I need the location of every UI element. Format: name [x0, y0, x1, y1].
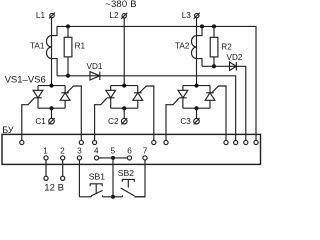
node terminal 5 — [111, 156, 115, 160]
BU input circle VD1 feed — [234, 140, 238, 144]
BU input circle gate VS3 — [93, 140, 97, 144]
terminal 12V a — [44, 176, 48, 180]
svg-text:C3: C3 — [180, 117, 191, 126]
wire gate VS2 — [67, 86, 82, 140]
BU terminal numbers 1-7 — [43, 146, 148, 155]
svg-text:SB2: SB2 — [118, 168, 134, 178]
thyristor pair VS3/VS4 — [106, 86, 143, 109]
BU input circle common bus — [254, 140, 258, 144]
terminal 7 — [143, 156, 147, 160]
svg-text:2: 2 — [60, 146, 65, 155]
thyristor pair VS1/VS2 — [33, 86, 70, 109]
thyristor pair VS5/VS6 — [178, 86, 215, 109]
wire TA1 bottom tap — [52, 59, 58, 76]
node pair3 bottom — [195, 106, 199, 110]
wire R2 top lead — [213, 26, 215, 37]
node TA2 tap — [200, 24, 204, 28]
svg-text:SB1: SB1 — [89, 171, 105, 181]
wire L2 phase — [123, 18, 125, 86]
wire L1 phase — [51, 18, 53, 86]
node pair1 top — [50, 84, 54, 88]
node pair1 bottom — [50, 106, 54, 110]
svg-text:7: 7 — [143, 146, 148, 155]
resistor R2 — [210, 37, 218, 57]
node R1 bottom — [66, 74, 70, 78]
wire L3 phase — [196, 18, 198, 86]
svg-text:C1: C1 — [35, 117, 46, 126]
svg-text:TA1: TA1 — [30, 41, 45, 50]
svg-text:VS1–VS6: VS1–VS6 — [5, 74, 46, 85]
wire R2 bottom lead — [213, 57, 215, 66]
svg-text:5: 5 — [111, 146, 116, 155]
svg-text:VD2: VD2 — [227, 53, 243, 62]
wire gate VS1 — [22, 98, 34, 140]
wire TA2 top tap — [197, 26, 203, 35]
node pair2 bottom — [122, 106, 126, 110]
wire TA2 bottom tap — [197, 59, 203, 67]
svg-text:R1: R1 — [75, 42, 86, 51]
svg-text:L2: L2 — [109, 11, 119, 20]
wire TA1 top tap — [52, 26, 58, 35]
terminal 6 — [127, 156, 131, 160]
wire terminal 5 down — [112, 160, 114, 197]
svg-text:4: 4 — [94, 146, 99, 155]
node pair2 top — [122, 84, 126, 88]
node R1 top — [66, 24, 70, 28]
wire terminal 7 down — [135, 160, 146, 197]
wire VD2 line — [202, 66, 246, 140]
wire gate VS4 — [139, 86, 154, 140]
resistor R1 — [64, 37, 72, 57]
wire gate VS5 — [166, 98, 179, 140]
node R2 top — [212, 24, 216, 28]
node rail 5 — [111, 195, 115, 199]
svg-text:VD1: VD1 — [87, 62, 103, 71]
wire gate VS3 — [95, 98, 107, 140]
BU input circle gate VS6 — [224, 140, 228, 144]
terminal 4 — [95, 156, 99, 160]
wire terminal 3 down — [78, 160, 80, 197]
BU input circle VD2 feed — [244, 140, 248, 144]
svg-text:L3: L3 — [182, 11, 192, 20]
node pair3 top — [195, 84, 199, 88]
wire R1 bottom lead — [67, 57, 69, 76]
BU input circle gate VS4 — [152, 140, 156, 144]
BU input circle gate VS5 — [164, 140, 168, 144]
svg-text:C2: C2 — [108, 117, 119, 126]
terminal 12V b — [61, 176, 65, 180]
svg-text:~380 В: ~380 В — [105, 0, 137, 10]
wire R1 top lead — [67, 26, 69, 37]
svg-text:L1: L1 — [36, 11, 46, 20]
svg-text:12 В: 12 В — [44, 182, 64, 193]
wire top common bus — [57, 26, 256, 140]
svg-text:3: 3 — [77, 146, 82, 155]
wire 12V leads — [46, 160, 63, 176]
wire bridge 4-5-6 — [99, 157, 128, 159]
svg-text:R2: R2 — [221, 43, 232, 52]
svg-text:1: 1 — [43, 146, 48, 155]
terminal 1 — [44, 156, 48, 160]
svg-text:6: 6 — [127, 146, 132, 155]
svg-text:TA2: TA2 — [175, 41, 190, 50]
node R2 bottom — [212, 64, 216, 68]
wire VD1 line — [57, 76, 236, 141]
BU input circle gate VS1 — [20, 140, 24, 144]
terminal 3 — [77, 156, 81, 160]
wire gate VS6 — [212, 86, 227, 140]
terminal 2 — [61, 156, 65, 160]
BU input circle gate VS2 — [79, 140, 83, 144]
